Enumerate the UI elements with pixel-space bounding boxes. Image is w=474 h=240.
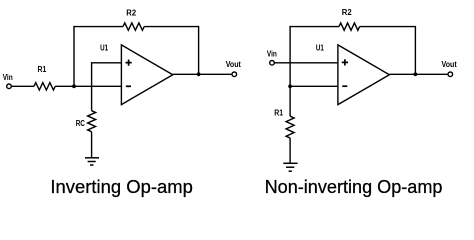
node output junction dot (right circuit)	[414, 72, 418, 76]
wire R1 to ground (right circuit)	[289, 138, 291, 163]
svg-text:R1: R1	[274, 108, 283, 117]
node A junction dot	[72, 84, 76, 88]
op-amp U1 (left circuit)	[121, 45, 172, 105]
wire feedback top left segment (right circuit)	[289, 26, 339, 28]
terminal Vin (right circuit)	[270, 61, 275, 66]
svg-text:R1: R1	[38, 65, 47, 74]
node B junction dot (right circuit)	[288, 84, 292, 88]
minus sign inverting input (right op-amp)	[342, 85, 347, 87]
resistor R2 (right circuit)	[339, 23, 360, 30]
wire Vin to R1	[11, 85, 34, 87]
wire R1 to inverting input	[55, 85, 121, 87]
wire feedback top right segment	[144, 26, 198, 28]
wire plus input down to RC	[91, 62, 93, 111]
wire feedback top left segment	[73, 26, 123, 28]
svg-text:Inverting Op-amp: Inverting Op-amp	[50, 176, 193, 197]
wire feedback down to output (right circuit)	[414, 26, 416, 74]
svg-text:Vout: Vout	[226, 60, 241, 69]
minus sign inverting input (left op-amp)	[126, 85, 131, 87]
wire RC to ground	[91, 132, 93, 158]
wire output to Vout (right circuit)	[389, 73, 448, 75]
wire node B down to R1 (right circuit)	[289, 86, 291, 116]
op-amp U1 (right circuit)	[338, 45, 390, 105]
terminal Vin (left circuit)	[7, 84, 12, 89]
node output junction dot (left circuit)	[197, 72, 201, 76]
wire plus input (left circuit)	[92, 62, 122, 64]
wire node B to inverting input (right circuit)	[290, 85, 338, 87]
plus sign non-inverting input (right op-amp)	[342, 59, 348, 65]
plus sign non-inverting input (left op-amp)	[126, 60, 132, 66]
svg-text:U1: U1	[100, 44, 108, 53]
terminal Vout (right circuit)	[448, 72, 453, 77]
resistor R1 (right circuit)	[286, 116, 294, 138]
wire output to Vout	[173, 73, 232, 75]
svg-text:Vout: Vout	[442, 60, 457, 69]
terminal Vout (left circuit)	[232, 72, 237, 77]
svg-text:R2: R2	[342, 8, 352, 17]
resistor RC (left circuit)	[88, 111, 96, 132]
wire Vin to plus input (right circuit)	[274, 62, 338, 64]
svg-text:RC: RC	[76, 119, 85, 128]
ground (left circuit)	[85, 158, 99, 165]
svg-text:Vin: Vin	[267, 50, 277, 59]
wire feedback vertical (right circuit)	[289, 27, 291, 87]
resistor R2 (left circuit)	[123, 23, 144, 30]
svg-text:Vin: Vin	[3, 73, 13, 82]
wire feedback down to output	[198, 26, 200, 74]
svg-text:U1: U1	[316, 44, 324, 53]
ground (right circuit)	[283, 163, 297, 171]
svg-text:Non-inverting Op-amp: Non-inverting Op-amp	[265, 176, 443, 197]
svg-text:R2: R2	[126, 8, 136, 17]
wire feedback vertical left	[73, 27, 75, 87]
wire feedback top right segment (right circuit)	[360, 26, 416, 28]
resistor R1 (left circuit)	[34, 83, 55, 90]
